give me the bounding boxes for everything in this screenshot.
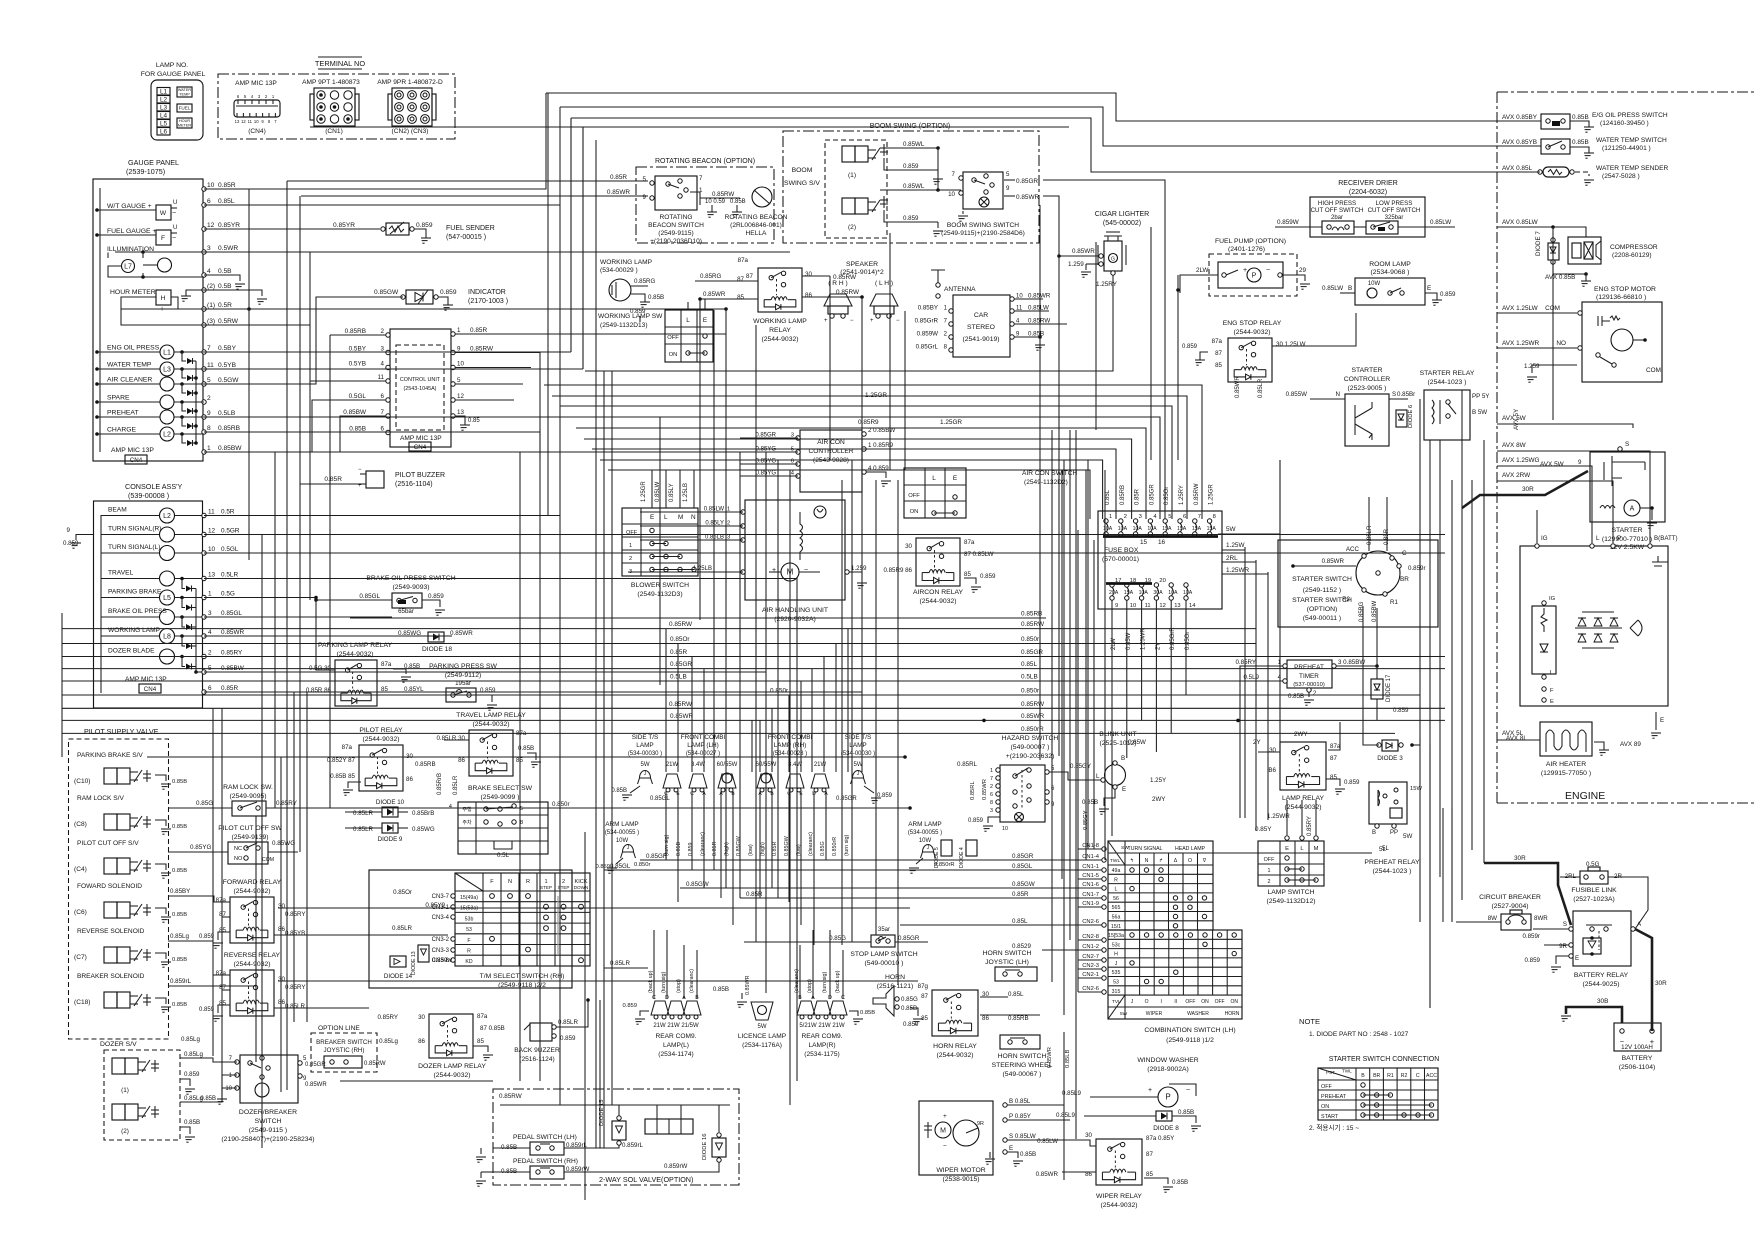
svg-text:0.85Lg: 0.85Lg xyxy=(181,1036,200,1043)
svg-text:86: 86 xyxy=(418,1038,425,1045)
svg-text:0.85WR: 0.85WR xyxy=(982,779,988,800)
dozer sv to switch wires xyxy=(180,1058,237,1062)
svg-text:AVX 1.25LW: AVX 1.25LW xyxy=(1502,305,1539,312)
svg-text:HIGH PRESS: HIGH PRESS xyxy=(1318,200,1356,207)
svg-text:(2506-1104): (2506-1104) xyxy=(1619,1064,1656,1071)
hazard ground xyxy=(988,817,1000,823)
svg-text:RECEIVER DRIER: RECEIVER DRIER xyxy=(1338,180,1398,187)
svg-text:7: 7 xyxy=(1198,514,1201,520)
svg-text:0.5G: 0.5G xyxy=(1586,861,1600,868)
boom swing solenoid 2 xyxy=(842,198,855,214)
svg-text:10W: 10W xyxy=(919,838,932,844)
lamp L5 cell xyxy=(157,120,170,128)
avx 30r diag xyxy=(1462,471,1588,508)
svg-text:30: 30 xyxy=(418,1014,425,1021)
gauge panel pin 7 0.5BY xyxy=(202,350,206,354)
svg-text:(turn sig): (turn sig) xyxy=(661,972,667,993)
svg-text:(CN2) (CN3): (CN2) (CN3) xyxy=(392,128,429,135)
svg-text:87: 87 xyxy=(1330,755,1337,762)
rotating beacon lamp xyxy=(752,187,772,207)
travel lamp relay ground xyxy=(527,753,536,760)
control unit left pin 3 xyxy=(386,350,390,354)
svg-text:15(53a): 15(53a) xyxy=(460,906,478,912)
wire wl relay 87 xyxy=(695,280,758,282)
svg-text:5: 5 xyxy=(520,806,523,812)
svg-text:21W 21W 21/5W: 21W 21W 21/5W xyxy=(653,1023,699,1029)
right column verticals long xyxy=(1429,745,1431,1008)
horn ground xyxy=(910,1008,918,1016)
svg-text:OFF: OFF xyxy=(1264,857,1275,863)
svg-text:0.859W: 0.859W xyxy=(917,331,938,338)
svg-text:U: U xyxy=(173,225,177,231)
receiver drier wires xyxy=(1275,226,1322,228)
svg-text:PEDAL SWITCH (RH): PEDAL SWITCH (RH) xyxy=(513,1158,578,1165)
svg-text:86: 86 xyxy=(805,292,812,299)
svg-text:PILOT SUPPLY VALVE: PILOT SUPPLY VALVE xyxy=(84,727,159,736)
connector CN2 CN3 body xyxy=(392,88,432,126)
rear lamp L ground xyxy=(640,1011,649,1016)
starter switch circle xyxy=(1356,551,1400,595)
console left rail xyxy=(100,515,102,693)
svg-text:CN1-6: CN1-6 xyxy=(1082,882,1099,888)
svg-text:DIODE 7: DIODE 7 xyxy=(1535,231,1542,256)
svg-text:87: 87 xyxy=(737,276,744,283)
svg-text:L3: L3 xyxy=(163,366,171,373)
svg-text:LOW PRESS: LOW PRESS xyxy=(1376,200,1413,207)
svg-text:S: S xyxy=(1563,921,1567,928)
svg-text:56a: 56a xyxy=(1112,915,1121,921)
wire top stair 1 xyxy=(546,93,1541,121)
fuse verticals bottom xyxy=(1111,600,1113,836)
wire hour meter (1) row xyxy=(204,308,726,310)
svg-text:5: 5 xyxy=(457,377,461,384)
svg-text:0.85G: 0.85G xyxy=(901,996,918,1003)
bus wire 0.850r y695 xyxy=(62,694,1420,696)
wiper relay xyxy=(1096,1139,1142,1185)
svg-text:CUT OFF SWITCH: CUT OFF SWITCH xyxy=(1311,207,1364,214)
starter switch enclosure box xyxy=(1278,540,1438,627)
svg-text:15A: 15A xyxy=(1207,526,1217,532)
svg-text:(2544-9032): (2544-9032) xyxy=(1233,329,1270,336)
svg-text:OFF: OFF xyxy=(908,493,920,499)
svg-text:E: E xyxy=(703,317,707,324)
forward relay xyxy=(230,897,274,943)
svg-text:0.5R: 0.5R xyxy=(218,302,232,309)
pilot valve FOWARD SOLENOID capacitor xyxy=(146,904,148,916)
svg-text:AVX 1.25WG: AVX 1.25WG xyxy=(1502,457,1540,464)
svg-text:0.5G: 0.5G xyxy=(221,591,235,598)
svg-text:LAMP SWITCH: LAMP SWITCH xyxy=(1267,889,1314,896)
air heater ground xyxy=(1594,742,1604,750)
right vertical pair x585-600 bottom xyxy=(584,832,586,1200)
beacon grounds xyxy=(699,198,701,205)
svg-text:L: L xyxy=(664,514,668,521)
bus wire 0.85WR y720.4 xyxy=(62,719,1445,721)
svg-text:−: − xyxy=(358,467,362,473)
svg-text:BR: BR xyxy=(1373,1073,1380,1079)
svg-text:F: F xyxy=(467,938,470,944)
avx vertical right xyxy=(1552,227,1554,420)
svg-text:S 0.85LW: S 0.85LW xyxy=(1009,1133,1036,1140)
svg-text:60/55W: 60/55W xyxy=(717,762,738,768)
svg-text:R: R xyxy=(467,949,471,955)
preheat timer box xyxy=(1287,660,1332,688)
svg-text:9R: 9R xyxy=(1559,943,1567,950)
svg-text:87a: 87a xyxy=(1330,743,1341,750)
svg-text:IG: IG xyxy=(1549,596,1556,602)
gauge panel pin 3 0.5WR xyxy=(202,250,206,254)
wire W/T gauge xyxy=(97,209,156,211)
svg-text:(back up): (back up) xyxy=(648,970,654,993)
svg-text:0.5RW: 0.5RW xyxy=(218,318,239,325)
lamp L2 cell xyxy=(157,96,170,104)
svg-text:87: 87 xyxy=(921,993,928,1000)
svg-text:(2544-9032): (2544-9032) xyxy=(233,888,270,895)
svg-text:(534-00055 ): (534-00055 ) xyxy=(605,830,639,836)
speaker RH xyxy=(824,294,852,306)
svg-text:30B: 30B xyxy=(1597,998,1608,1005)
svg-text:0.5BY: 0.5BY xyxy=(218,345,237,352)
svg-text:3: 3 xyxy=(208,610,212,617)
svg-text:CN2-7: CN2-7 xyxy=(1082,954,1099,960)
svg-text:COMBINATION SWITCH (LH): COMBINATION SWITCH (LH) xyxy=(1144,1027,1235,1034)
svg-text:ANTENNA: ANTENNA xyxy=(944,286,976,293)
svg-text:1: 1 xyxy=(990,768,993,774)
blink ground xyxy=(1104,789,1115,806)
svg-text:0.85GL: 0.85GL xyxy=(221,610,242,617)
svg-text:10A: 10A xyxy=(1133,526,1143,532)
svg-text:주차: 주차 xyxy=(462,819,472,826)
lamp LH ground xyxy=(630,786,640,793)
gauge panel pin 12 0.85YR xyxy=(202,227,206,231)
svg-text:(3): (3) xyxy=(207,318,215,325)
svg-text:0.85LR: 0.85LR xyxy=(392,925,412,932)
svg-text:COM: COM xyxy=(1646,367,1661,374)
svg-text:0.85RrB: 0.85RrB xyxy=(437,773,443,795)
svg-text:LAMP(L): LAMP(L) xyxy=(663,1042,689,1049)
svg-text:0.85GL: 0.85GL xyxy=(1012,863,1033,870)
svg-text:SWING S/V: SWING S/V xyxy=(784,180,820,187)
svg-text:COMPRESSOR: COMPRESSOR xyxy=(1610,244,1658,251)
svg-text:CIRCUIT BREAKER: CIRCUIT BREAKER xyxy=(1479,894,1541,901)
svg-text:CONTROLLER: CONTROLLER xyxy=(1344,376,1391,383)
vertical bundle center x540-612 xyxy=(539,353,541,1082)
horn relay 86 to comb xyxy=(980,1014,1040,1016)
control unit outer box xyxy=(390,329,451,447)
svg-text:RAM LOCK S/V: RAM LOCK S/V xyxy=(77,795,125,802)
wire wl relay 86 xyxy=(802,296,862,298)
svg-text:CN4: CN4 xyxy=(130,457,143,464)
preheat relay box xyxy=(1369,782,1407,824)
lamp relay 2Y wire xyxy=(1258,751,1280,753)
svg-text:0.859: 0.859 xyxy=(622,1003,637,1009)
svg-text:CN4: CN4 xyxy=(414,444,427,451)
ig wire xyxy=(1536,510,1538,543)
pilot cut off switch xyxy=(228,842,268,864)
svg-text:85: 85 xyxy=(219,927,226,934)
svg-text:(clearanc): (clearanc) xyxy=(808,832,814,856)
rear comb lamp R xyxy=(797,1001,815,1015)
svg-text:0.85L: 0.85L xyxy=(218,198,235,205)
bus wire 0.85RW y628.6 xyxy=(62,628,1256,630)
fuse feed band horizontals xyxy=(544,385,1202,519)
svg-text:METER: METER xyxy=(178,124,192,128)
svg-text:0.85B: 0.85B xyxy=(860,1010,875,1016)
bus wire 0.5LB y681 xyxy=(62,680,1278,682)
svg-text:DIODE 5: DIODE 5 xyxy=(934,847,940,868)
receiver drier riser x1151 xyxy=(1150,227,1152,460)
svg-text:C: C xyxy=(1416,1073,1420,1079)
svg-text:0.85R: 0.85R xyxy=(772,842,778,856)
svg-text:87a 0.85Y: 87a 0.85Y xyxy=(1146,1135,1174,1142)
svg-text:13: 13 xyxy=(235,119,240,124)
svg-text:0.85WR: 0.85WR xyxy=(1028,293,1051,300)
svg-text:87a: 87a xyxy=(964,539,975,546)
svg-text:L2: L2 xyxy=(160,97,168,104)
svg-text:10: 10 xyxy=(208,546,216,553)
svg-text:ROOM LAMP: ROOM LAMP xyxy=(1369,261,1411,268)
licence lamp wires xyxy=(741,993,743,999)
gauge panel pin 10 0.85R xyxy=(202,187,206,191)
svg-text:85: 85 xyxy=(737,294,744,301)
wiper motor disc xyxy=(953,1120,979,1146)
wiper motor pins xyxy=(1003,1103,1007,1107)
svg-text:0.85YR: 0.85YR xyxy=(218,222,240,229)
svg-text:10A: 10A xyxy=(1139,590,1149,596)
svg-text:0.85GR: 0.85GR xyxy=(1016,178,1038,185)
svg-text:2LW: 2LW xyxy=(1196,267,1209,274)
blower switch table xyxy=(622,508,698,576)
svg-text:WATER TEMP: WATER TEMP xyxy=(107,362,152,369)
svg-text:0.859: 0.859 xyxy=(688,843,694,857)
svg-text:BR: BR xyxy=(1400,576,1409,583)
svg-text:0.85RY: 0.85RY xyxy=(285,984,306,991)
battery relay coil diode xyxy=(1583,938,1601,954)
svg-text:(534-00055 ): (534-00055 ) xyxy=(908,830,942,836)
arm lamp LH symbol xyxy=(623,845,634,852)
svg-text:0.85RY: 0.85RY xyxy=(221,650,243,657)
svg-text:11: 11 xyxy=(1145,603,1151,609)
svg-text:WATER TEMP SENDER: WATER TEMP SENDER xyxy=(1596,165,1669,172)
svg-text:(534-00030 ): (534-00030 ) xyxy=(841,751,875,757)
svg-text:0.85L: 0.85L xyxy=(1105,489,1111,505)
svg-text:0.85BrB: 0.85BrB xyxy=(412,810,434,817)
svg-text:30A: 30A xyxy=(1153,590,1163,596)
window washer wires xyxy=(1090,1096,1158,1098)
svg-text:2-WAY SOL VALVE(OPTION): 2-WAY SOL VALVE(OPTION) xyxy=(599,1175,693,1184)
svg-text:(2544-9032): (2544-9032) xyxy=(362,736,399,743)
svg-text:ENG STOP MOTOR: ENG STOP MOTOR xyxy=(1594,286,1656,293)
svg-text:WIPER RELAY: WIPER RELAY xyxy=(1096,1193,1142,1200)
svg-text:16: 16 xyxy=(1158,539,1166,546)
reverse relay left stubs xyxy=(213,974,230,976)
svg-text:DIODE 14: DIODE 14 xyxy=(384,973,413,980)
connector CN4 body xyxy=(234,100,280,117)
receiver drier box xyxy=(1310,197,1425,237)
combination switch lower table xyxy=(1108,930,1242,1019)
svg-text:AMP MIC 13P: AMP MIC 13P xyxy=(111,447,154,454)
svg-text:N: N xyxy=(508,879,512,885)
air handling pins xyxy=(741,510,745,514)
svg-text:0.85LR: 0.85LR xyxy=(353,810,373,817)
svg-text:5W: 5W xyxy=(1403,833,1412,840)
svg-text:0.85LR: 0.85LR xyxy=(453,775,459,795)
circuit breaker feed xyxy=(1456,921,1501,923)
svg-text:0.85L: 0.85L xyxy=(1008,991,1024,998)
svg-text:0.859: 0.859 xyxy=(1344,779,1360,786)
rear lamp L verticals xyxy=(653,930,655,999)
svg-text:DIODE 8: DIODE 8 xyxy=(1153,1125,1179,1132)
svg-text:(121250-44901 ): (121250-44901 ) xyxy=(1602,145,1651,152)
gauge row 1 0.85BW long xyxy=(204,451,766,453)
wire wl relay 85 xyxy=(700,298,758,300)
svg-text:HEAD LAMP: HEAD LAMP xyxy=(1175,846,1206,852)
svg-text:(2534-9068 ): (2534-9068 ) xyxy=(1371,269,1410,276)
svg-text:(2534-1176A): (2534-1176A) xyxy=(742,1042,782,1049)
lamp LH verticals xyxy=(665,792,667,860)
combination switch upper circles xyxy=(1130,868,1134,872)
wire eng stop relay 30 xyxy=(1272,313,1356,346)
svg-text:T/M SELECT SWITCH (RH): T/M SELECT SWITCH (RH) xyxy=(480,973,565,980)
svg-text:0.85RW: 0.85RW xyxy=(669,621,693,628)
svg-text:CN1-4: CN1-4 xyxy=(1082,854,1100,860)
svg-text:ACC: ACC xyxy=(1346,546,1360,553)
diode 14 xyxy=(390,956,406,967)
svg-text:∇: ∇ xyxy=(1202,858,1207,864)
svg-text:0.859r: 0.859r xyxy=(1408,565,1426,572)
svg-text:(2208-60129): (2208-60129) xyxy=(1612,252,1652,259)
control unit left pin 2 xyxy=(386,333,390,337)
svg-text:PP 5Y: PP 5Y xyxy=(1472,393,1489,400)
pilot valve RAM LOCK S/V capacitor xyxy=(146,816,148,828)
svg-text:2: 2 xyxy=(629,556,632,562)
pilot valve ground stubs xyxy=(155,775,166,781)
svg-text:9: 9 xyxy=(1006,185,1010,192)
fuse 11 xyxy=(1139,583,1143,587)
front combi LH bulbs xyxy=(663,774,681,788)
svg-text:WINDOW WASHER: WINDOW WASHER xyxy=(1137,1057,1198,1064)
svg-text:L1: L1 xyxy=(160,89,168,96)
diode 6 xyxy=(1396,410,1407,427)
svg-text:TURN SIGNAL: TURN SIGNAL xyxy=(1128,846,1163,852)
svg-text:W/T GAUGE +: W/T GAUGE + xyxy=(107,203,152,210)
svg-text:RELAY: RELAY xyxy=(769,327,791,334)
svg-text:0.850r: 0.850r xyxy=(552,801,570,808)
wire starter switch 0.85WR xyxy=(1293,565,1356,567)
svg-text:(2544-9032): (2544-9032) xyxy=(233,961,270,968)
parking lamp relay xyxy=(335,660,377,706)
parking press sw xyxy=(446,688,476,702)
svg-text:(2523-9005 ): (2523-9005 ) xyxy=(1348,385,1387,392)
svg-text:9: 9 xyxy=(643,194,647,201)
boom swing switch xyxy=(963,172,1003,209)
svg-text:(2549-9115): (2549-9115) xyxy=(658,230,693,237)
svg-text:0.85WR: 0.85WR xyxy=(703,291,726,298)
svg-text:0.5R: 0.5R xyxy=(221,509,235,516)
svg-text:2RL: 2RL xyxy=(1226,555,1238,562)
high press switch xyxy=(1322,221,1354,234)
svg-text:0.85B: 0.85B xyxy=(1082,799,1098,806)
svg-text:AVX 0.85L: AVX 0.85L xyxy=(1502,165,1533,172)
compressor xyxy=(1568,237,1601,264)
svg-text:JOYSTIC (LH): JOYSTIC (LH) xyxy=(985,959,1029,966)
svg-text:5L: 5L xyxy=(1382,845,1389,852)
svg-text:OFF: OFF xyxy=(1321,1084,1332,1090)
tm select switch table xyxy=(455,873,590,966)
svg-text:(1): (1) xyxy=(207,302,215,309)
svg-text:BRAKE OIL PRESS: BRAKE OIL PRESS xyxy=(108,608,167,615)
svg-text:87a: 87a xyxy=(1212,338,1223,345)
dozer switch 0.85B ground wire xyxy=(222,1088,237,1096)
svg-text:0.5YB: 0.5YB xyxy=(218,362,237,369)
svg-text:0.85LR: 0.85LR xyxy=(610,960,630,967)
control unit left pin wires xyxy=(330,334,386,336)
svg-text:CN1-2: CN1-2 xyxy=(1082,944,1099,950)
parking press sw wire xyxy=(377,694,446,696)
svg-text:0.850rR: 0.850rR xyxy=(832,837,838,856)
svg-text:15A: 15A xyxy=(1162,526,1172,532)
svg-text:(2534-1174): (2534-1174) xyxy=(658,1051,693,1058)
wiper motor P wire xyxy=(1007,1119,1070,1121)
svg-text:FUEL GAUGE +: FUEL GAUGE + xyxy=(107,228,156,235)
arm lamp RH symbol xyxy=(923,845,934,852)
svg-text:0.85L: 0.85L xyxy=(1012,918,1028,925)
svg-text:AIRCON RELAY: AIRCON RELAY xyxy=(913,589,964,596)
svg-text:HORN RELAY: HORN RELAY xyxy=(933,1043,977,1050)
svg-text:0.85G: 0.85G xyxy=(829,935,846,942)
svg-text:1: 1 xyxy=(208,591,212,598)
svg-text:0.859: 0.859 xyxy=(199,1007,215,1013)
svg-text:2. 적용시기 : 15 ~: 2. 적용시기 : 15 ~ xyxy=(1309,1123,1359,1132)
pilot supply valve dashed box xyxy=(69,739,169,1039)
fuel sender wire xyxy=(204,228,380,230)
lamp L3 cell xyxy=(157,104,170,112)
svg-text:0.85WL: 0.85WL xyxy=(903,183,925,190)
svg-text:STARTER SWITCH CONNECTION: STARTER SWITCH CONNECTION xyxy=(1329,1056,1440,1063)
svg-text:WASHER: WASHER xyxy=(1187,1011,1209,1017)
svg-text:CIGAR LIGHTER: CIGAR LIGHTER xyxy=(1095,211,1149,218)
svg-text:0.859: 0.859 xyxy=(199,934,215,940)
svg-text:0.85RW: 0.85RW xyxy=(1021,701,1045,708)
svg-text:L5: L5 xyxy=(160,121,168,128)
cigar lighter bottom pin xyxy=(1111,271,1115,275)
svg-text:0.5BY: 0.5BY xyxy=(349,346,367,353)
diode 13 xyxy=(418,945,429,962)
svg-text:ON: ON xyxy=(669,352,678,358)
svg-text:8WR: 8WR xyxy=(1534,915,1548,922)
svg-text:11: 11 xyxy=(207,362,214,369)
battery relay S feed xyxy=(1533,928,1569,930)
control unit right pin 12 xyxy=(451,398,455,402)
svg-text:(545-00002): (545-00002) xyxy=(1103,220,1141,227)
svg-text:0.85GL: 0.85GL xyxy=(610,863,631,870)
svg-text:85: 85 xyxy=(964,571,971,578)
svg-text:BATTERY RELAY: BATTERY RELAY xyxy=(1574,972,1629,979)
pilot relay xyxy=(359,745,403,791)
svg-text:10: 10 xyxy=(457,361,464,368)
svg-text:13: 13 xyxy=(208,572,216,579)
svg-text:L3: L3 xyxy=(160,105,168,112)
svg-text:(2549-1152 ): (2549-1152 ) xyxy=(1303,587,1341,594)
gauge panel inner rail xyxy=(99,188,101,452)
svg-text:0.85G: 0.85G xyxy=(196,800,213,807)
svg-text:0.85LW: 0.85LW xyxy=(1037,1138,1058,1145)
svg-text:+: + xyxy=(772,567,776,574)
vertical bundle x830-905 xyxy=(829,276,831,460)
svg-text:R2: R2 xyxy=(1401,1073,1408,1079)
svg-text:0.85LW: 0.85LW xyxy=(1028,305,1049,312)
svg-text:30R: 30R xyxy=(1522,486,1534,493)
